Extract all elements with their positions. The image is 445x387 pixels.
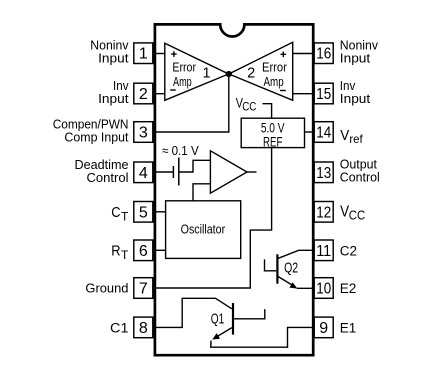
regulator U3 5.0V REF box [241,118,304,149]
VCC label top [236,96,257,114]
svg-text:Input: Input [340,51,371,66]
wire REF box to pin14 [305,131,314,133]
svg-text:T: T [121,248,129,262]
svg-text:Oscillator: Oscillator [181,222,226,237]
wire Q1 emitter to pin9 [211,327,313,347]
svg-text:2: 2 [247,65,255,81]
Q1 base stub [234,309,265,319]
minus sign EA2 [280,90,286,92]
wire pin11 to Q2 collector [278,250,313,258]
svg-text:4: 4 [139,165,148,182]
pin 12 box [314,202,333,223]
plus sign EA1 [171,51,177,57]
pin 14 box [314,122,333,143]
svg-text:E1: E1 [340,320,357,335]
pin 1 box [134,43,153,64]
wire battery to comparator + input [179,160,211,172]
wire comparator output [247,171,257,173]
svg-text:Q1: Q1 [211,312,225,328]
pin 7 box [134,278,153,299]
comparator U4 deadtime [210,151,247,193]
svg-text:R: R [111,243,120,260]
svg-text:Input: Input [340,91,371,106]
svg-text:Comp Input: Comp Input [64,129,128,144]
wire pin3 to junction dot [155,74,229,132]
pin 8 box [134,317,153,338]
wire EA2 + input to pin16 [293,53,314,55]
svg-text:12: 12 [316,204,331,221]
wire pin7 ground to REF box bottom [155,148,272,288]
wire pin6 to oscillator [155,249,166,251]
wire EA2 - input to pin15 [293,93,314,95]
svg-text:1: 1 [139,46,148,63]
svg-text:2: 2 [139,86,148,103]
svg-text:Input: Input [98,91,129,106]
svg-text:8: 8 [139,320,148,337]
Q2 base stub [265,259,277,270]
svg-text:C: C [111,204,120,221]
wire pin2 to EA1 - input [155,93,165,95]
svg-text:Ground: Ground [85,281,128,296]
pin 9 box [314,317,333,338]
svg-text:15: 15 [316,86,331,103]
label pin13 Output Control [340,157,380,185]
svg-text:E2: E2 [340,281,357,296]
svg-text:Control: Control [340,170,380,185]
svg-text:Control: Control [87,170,129,185]
svg-text:14: 14 [316,125,331,142]
pin 5 box [134,202,153,223]
svg-text:ref: ref [349,132,363,146]
wire pin5 to oscillator [155,211,166,213]
svg-text:13: 13 [316,165,331,182]
svg-text:1: 1 [202,65,210,81]
svg-text:V: V [340,127,349,144]
pin 16 box [314,43,333,64]
svg-text:11: 11 [316,243,331,260]
pin 2 box [134,83,153,104]
oscillator U5 box [166,201,241,259]
transistor Q1 [211,303,233,335]
label pin3 Compen/PWN Comp Input [53,116,129,144]
op-amp U1 error amplifier 1 [165,43,229,100]
IC package outline with pin-1 notch [155,24,313,355]
Q1 emitter with arrow [212,328,232,340]
svg-text:Input: Input [98,51,129,66]
svg-text:T: T [121,210,129,224]
wire pin1 to EA1 + input [155,53,165,55]
wire pin8 to Q1 collector [155,298,232,327]
wire pin4 to battery [155,171,174,173]
junction dot node [226,71,232,77]
pin 10 box [314,278,333,299]
svg-text:REF: REF [263,134,282,150]
svg-text:5: 5 [139,204,148,221]
svg-text:C1: C1 [110,320,129,335]
transistor Q2 [277,254,298,283]
battery B1 0.1V offset [173,158,178,186]
svg-text:Error: Error [262,60,287,74]
svg-text:16: 16 [316,46,331,63]
pin 3 box [134,122,153,143]
svg-text:3: 3 [139,125,148,142]
pin 13 box [314,162,333,183]
label pin2 Inv Input [98,78,129,106]
svg-text:Amp: Amp [264,75,284,89]
op-amp U2 error amplifier 2 [229,42,293,100]
svg-text:Q2: Q2 [284,261,298,277]
label pin4 Deadtime Control [75,157,129,185]
pin 15 box [314,83,333,104]
pin 6 box [134,240,153,261]
label pin15 Inv Input [340,78,371,106]
label pin16 Noninv Input [340,38,379,66]
svg-text:Error: Error [172,60,196,74]
svg-text:≈ 0.1 V: ≈ 0.1 V [162,143,199,158]
svg-text:CC: CC [242,102,256,114]
wire VCC bracket to REF box [263,104,272,119]
Q2 emitter with arrow to pin10 [278,277,313,289]
plus sign EA2 [281,52,287,58]
svg-text:7: 7 [139,281,148,298]
svg-text:CC: CC [349,209,365,223]
svg-text:C2: C2 [340,243,357,258]
svg-text:9: 9 [319,320,328,337]
svg-text:Amp: Amp [173,75,192,89]
pin 4 box [134,162,153,183]
svg-text:10: 10 [316,281,331,298]
minus sign EA1 [170,89,176,91]
wire oscillator to comparator - input [193,184,210,201]
label pin1 Noninv Input [90,38,129,66]
svg-text:6: 6 [139,243,148,260]
pin 11 box [314,240,333,261]
